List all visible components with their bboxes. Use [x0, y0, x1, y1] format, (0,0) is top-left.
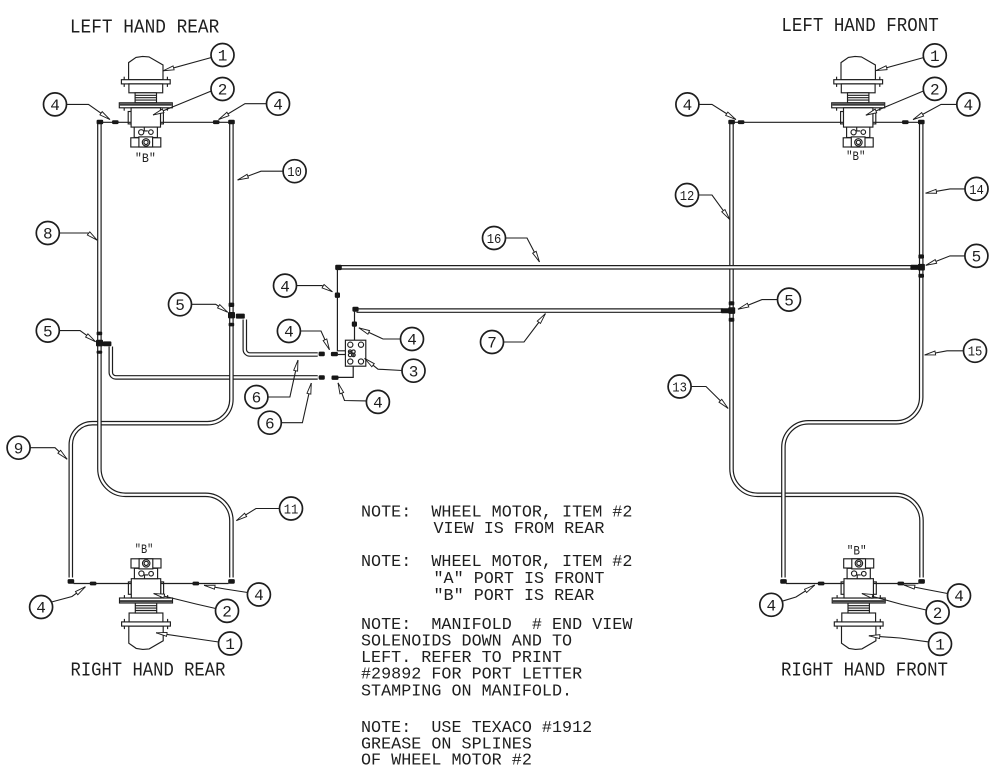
callout 4 RH rear left	[30, 587, 86, 619]
svg-text:4: 4	[36, 600, 46, 618]
callout 2 LH rear	[153, 78, 234, 116]
hose 7 (manifold to left tee of LH front)	[357, 308, 723, 313]
svg-text:3: 3	[409, 363, 419, 381]
svg-text:16: 16	[487, 232, 502, 248]
hose 6 upper (right tee to manifold)	[245, 320, 318, 355]
callout 11	[236, 497, 302, 521]
callout 10	[238, 160, 307, 183]
port line LH front right	[873, 121, 919, 123]
hose 10 and hose 9 (LH rear right port to RH rear left port)	[71, 124, 232, 578]
svg-text:6: 6	[265, 415, 275, 433]
elbow fitting hose 12 top	[728, 120, 735, 125]
hose 14 and hose 15 (LH front right port to RH front left port)	[783, 124, 921, 578]
svg-text:11: 11	[284, 502, 299, 518]
tee fitting 5 on hose 10	[228, 303, 245, 327]
svg-text:14: 14	[969, 183, 984, 199]
fitting 4 RH rear left port line	[90, 582, 97, 586]
svg-text:4: 4	[273, 96, 283, 114]
elbow fitting hose 11 bottom	[228, 579, 235, 584]
fitting 4 LH rear right port line	[213, 120, 220, 124]
callout 14	[926, 177, 989, 200]
svg-text:12: 12	[680, 189, 695, 205]
wheel motor 2 LH rear	[119, 56, 172, 147]
callout 5 on hose 8	[36, 319, 95, 342]
tee fitting 5 on hose 14	[910, 254, 925, 277]
svg-text:9: 9	[14, 440, 24, 458]
svg-text:″B″: ″B″	[135, 152, 156, 166]
wheel motor 2 LH front	[832, 56, 885, 147]
fitting 4 LH rear left port line	[112, 120, 119, 124]
callout 4 LH front right	[913, 93, 980, 120]
elbow fitting hose 13 bottom	[918, 579, 925, 584]
fitting 4 on hose 7 drop	[352, 322, 357, 327]
callout 4 hose 6 upper	[277, 320, 329, 350]
callout 2 RH rear	[154, 594, 239, 623]
callout 4 RH front left	[760, 585, 815, 616]
callout 1 RH front	[869, 632, 952, 655]
svg-text:LEFT HAND REAR: LEFT HAND REAR	[70, 16, 219, 38]
callout 13	[668, 375, 728, 409]
port line RH rear right	[161, 583, 229, 585]
fitting 4 RH front left port line	[818, 582, 825, 586]
svg-text:4: 4	[50, 97, 60, 115]
svg-text:2: 2	[930, 82, 940, 100]
svg-text:4: 4	[284, 324, 294, 342]
svg-text:4: 4	[254, 587, 264, 605]
svg-text:4: 4	[683, 97, 693, 115]
fitting 4 on hose 6 upper to manifold	[331, 352, 338, 356]
svg-text:″B″: ″B″	[135, 543, 154, 557]
hose 7 drop line to manifold	[354, 310, 356, 340]
callout 4 LH rear left	[44, 93, 111, 120]
svg-text:1: 1	[930, 48, 940, 66]
svg-text:″A″ PORT IS FRONT: ″A″ PORT IS FRONT	[434, 570, 605, 589]
svg-text:RIGHT HAND FRONT: RIGHT HAND FRONT	[781, 660, 948, 682]
hose 16 drop line to manifold	[337, 270, 345, 351]
callout 4 RH front right	[904, 584, 971, 607]
elbow fitting hose 8 top	[97, 120, 104, 125]
callout 6 lower hose	[258, 383, 311, 434]
svg-text:VIEW IS FROM REAR: VIEW IS FROM REAR	[434, 520, 605, 539]
elbow fitting hose 9 bottom	[68, 579, 75, 584]
callout 4 RH rear right	[204, 583, 270, 606]
hose 12 and hose 13 (LH front left port to RH front right port)	[732, 124, 922, 578]
svg-text:1: 1	[225, 636, 235, 654]
elbow fitting hose 10 top	[228, 120, 235, 125]
svg-text:2: 2	[218, 82, 228, 100]
svg-text:10: 10	[287, 165, 302, 181]
fitting 4 LH front right port line	[902, 120, 909, 124]
port line RH front left	[786, 583, 844, 585]
wheel motor 2 RH rear (inverted)	[120, 559, 173, 650]
callout 5 on hose 14	[926, 244, 988, 267]
callout 4 hose 7 drop	[359, 328, 424, 351]
elbow fitting hose 14 top	[918, 120, 925, 125]
tee fitting 5 on hose 8	[96, 332, 111, 354]
svg-text:6: 6	[252, 390, 262, 408]
svg-text:4: 4	[373, 395, 383, 413]
svg-text:1: 1	[935, 637, 945, 655]
fitting 4 on hose 16 drop	[335, 293, 340, 298]
port line RH rear left	[74, 583, 132, 585]
svg-text:″B″: ″B″	[847, 545, 867, 559]
callout 5 on hose 10	[169, 293, 228, 316]
hose 6 upper connector line	[338, 354, 346, 356]
svg-text:OF WHEEL MOTOR #2: OF WHEEL MOTOR #2	[361, 751, 532, 770]
hose 8 and hose 11 (LH rear left port to RH rear right port)	[99, 124, 231, 578]
elbow fitting hose 7 left end	[352, 307, 358, 312]
svg-text:5: 5	[972, 249, 982, 267]
svg-text:4: 4	[963, 97, 973, 115]
callout 4 LH rear right	[219, 92, 290, 119]
svg-text:5: 5	[175, 297, 185, 315]
svg-text:″B″: ″B″	[846, 150, 865, 164]
port line RH front right	[873, 583, 918, 585]
tee fitting 5 on hose 12	[721, 301, 735, 322]
callout 3 manifold	[365, 358, 426, 382]
port line LH rear right	[161, 121, 229, 123]
callout 4 hose 16 drop	[274, 274, 333, 297]
svg-text:4: 4	[954, 588, 964, 606]
svg-text:5: 5	[784, 292, 794, 310]
callout 2 RH front	[862, 594, 949, 624]
svg-text:RIGHT HAND REAR: RIGHT HAND REAR	[71, 660, 226, 682]
callout 15	[925, 339, 987, 362]
svg-text:2: 2	[933, 605, 943, 623]
callout 4 hose 6 lower	[338, 383, 389, 414]
svg-text:4: 4	[766, 598, 776, 616]
callout 16	[483, 227, 540, 263]
callout 2 LH front	[866, 77, 947, 115]
callout 12	[676, 184, 730, 220]
wheel motor 2 RH front (inverted)	[832, 559, 885, 650]
hose 6 lower connector line	[339, 366, 354, 377]
manifold item 3	[345, 340, 365, 366]
elbow fitting hose 16 left end	[335, 265, 342, 270]
port line LH rear left	[103, 121, 132, 123]
svg-text:5: 5	[43, 323, 53, 341]
fitting 4 LH front left port line	[738, 120, 745, 124]
hose 16 (manifold to right tee of LH front)	[340, 265, 913, 270]
svg-text:″B″ PORT IS REAR: ″B″ PORT IS REAR	[434, 587, 595, 606]
hose 6 lower (left tee to manifold)	[111, 347, 318, 378]
fitting 4 on hose 6 upper end	[319, 352, 325, 357]
callout 7	[481, 314, 546, 354]
svg-text:STAMPING ON MANIFOLD.: STAMPING ON MANIFOLD.	[361, 682, 572, 701]
callout 1 LH rear	[163, 44, 234, 71]
svg-text:8: 8	[43, 226, 53, 244]
svg-text:15: 15	[968, 345, 983, 361]
svg-text:4: 4	[407, 332, 417, 350]
svg-text:4: 4	[280, 278, 290, 296]
svg-text:1: 1	[218, 48, 228, 66]
callout 5 on hose 12	[738, 288, 801, 311]
svg-text:LEFT HAND FRONT: LEFT HAND FRONT	[781, 15, 938, 37]
fitting 4 RH front right port line	[898, 582, 905, 586]
callout 1 LH front	[876, 44, 946, 71]
callout 8	[36, 222, 97, 245]
callout 4 LH front left	[676, 93, 736, 120]
fitting 4 on hose 6 lower end	[319, 375, 325, 379]
port line LH front left	[735, 121, 844, 123]
svg-text:7: 7	[487, 335, 497, 353]
callout 6 upper hose	[245, 360, 298, 409]
elbow fitting hose 15 bottom	[780, 579, 787, 584]
svg-text:13: 13	[672, 380, 687, 396]
callout 9	[7, 436, 67, 459]
svg-text:2: 2	[222, 604, 232, 622]
fitting 4 on hose 6 lower to manifold	[332, 376, 339, 380]
callout 1 RH rear	[156, 632, 242, 655]
fitting 4 RH rear right port line	[193, 582, 200, 586]
